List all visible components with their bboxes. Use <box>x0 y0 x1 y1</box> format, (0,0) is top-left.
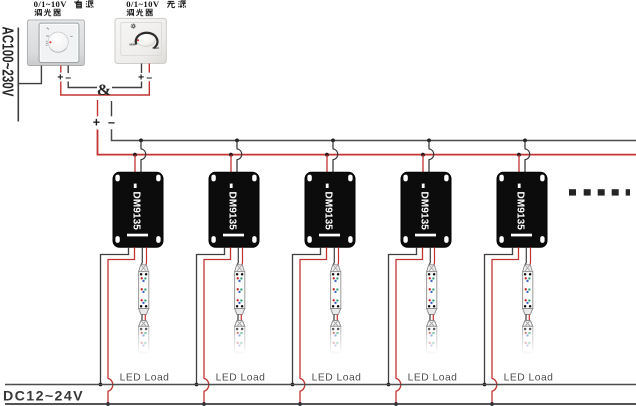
LED strip load LD3 <box>331 265 341 357</box>
svg-text:DM9135: DM9135 <box>323 192 334 231</box>
junction: dim+ bus tap module 2 <box>229 153 233 157</box>
junction: dim- bus tap module 5 <box>523 139 527 143</box>
junction: dim+ bus tap module 3 <box>325 153 329 157</box>
junction: dim- bus tap module 1 <box>139 139 143 143</box>
wire: LED+ output lead (module 4) <box>433 247 436 264</box>
wire: DM9135 #2 V+ lead to DC bus (hops over DC- bus) <box>204 247 231 403</box>
wire: combined V+ drop <box>97 100 99 116</box>
wire: dim+ drop to DM9135 #5 <box>518 155 520 173</box>
dimming driver module DM9135 #3 <box>305 172 355 247</box>
wire: dim- drop to DM9135 #2 (hops over red bus) <box>237 140 242 172</box>
AC mains supply line <box>17 28 19 122</box>
wire: dim+ drop to DM9135 #4 <box>422 155 424 173</box>
rotary knob of passive dimmer <box>136 32 155 46</box>
svg-text:–: – <box>108 116 115 130</box>
wire: dim+ drop to DM9135 #3 <box>326 155 328 173</box>
brightness sun icon <box>131 24 136 29</box>
svg-text:LED Load: LED Load <box>216 372 266 383</box>
wire: active dimmer V+ stub <box>60 66 62 73</box>
wire: DM9135 #2 V- lead to DC bus <box>197 247 225 384</box>
svg-text:DM9135: DM9135 <box>131 192 142 231</box>
junction: V+ on DC+ line (module 2) <box>202 402 206 406</box>
svg-text:&: & <box>97 82 111 99</box>
knob red indicator <box>137 39 139 41</box>
wire: LED+ output lead (module 3) <box>337 247 340 264</box>
wire: LED- output lead (module 1) <box>141 247 142 264</box>
wire: DM9135 #4 V+ lead to DC bus (hops over DC- bus) <box>396 247 423 403</box>
wire: DM9135 #1 V- lead to DC bus <box>101 247 129 384</box>
junction: dim- bus tap module 3 <box>331 139 335 143</box>
wire: LED+ output lead (module 2) <box>241 247 244 264</box>
svg-text:LED Load: LED Load <box>408 372 458 383</box>
wire: LED+ output lead (module 1) <box>145 247 148 264</box>
svg-text:DM9135: DM9135 <box>227 192 238 231</box>
wire: DM9135 #3 V+ lead to DC bus (hops over DC- bus) <box>300 247 327 403</box>
svg-text:MAX: MAX <box>153 46 160 50</box>
junction: dim- bus tap module 4 <box>427 139 431 143</box>
svg-text:LED Load: LED Load <box>120 372 170 383</box>
wire: dim- drop to DM9135 #5 (hops over red bus) <box>525 140 530 172</box>
wire: LED- output lead (module 4) <box>429 247 430 264</box>
wire: DM9135 #5 V- lead to DC bus <box>485 247 513 384</box>
dimming driver module DM9135 #4 <box>401 172 451 247</box>
junction: V- on DC- bus (module 1) <box>99 383 103 387</box>
dimming driver module DM9135 #2 <box>209 172 259 247</box>
junction: V+ on DC+ line (module 5) <box>490 402 494 406</box>
wire: DM9135 #1 V+ lead to DC bus (hops over DC- bus) <box>108 247 135 403</box>
passive dimmer panel (0/1-10V passive dimmer) <box>115 18 166 63</box>
wire: LED- output lead (module 5) <box>525 247 526 264</box>
svg-text:+: + <box>93 116 100 130</box>
wire: LED- output lead (module 3) <box>333 247 334 264</box>
wire: DM9135 #3 V- lead to DC bus <box>293 247 321 384</box>
DC+ power line <box>5 403 636 405</box>
wire: active dimmer AC-L to mains line <box>18 66 41 84</box>
active dimmer panel (0/1-10V active dimmer) <box>27 20 84 66</box>
wire: LED+ output lead (module 5) <box>529 247 532 264</box>
wire: LED- output lead (module 2) <box>237 247 238 264</box>
junction: dim+ bus tap module 4 <box>421 153 425 157</box>
junction: dim+ bus tap module 1 <box>133 153 137 157</box>
junction: dim- bus tap module 2 <box>235 139 239 143</box>
scale marks on active dimmer <box>46 28 73 46</box>
svg-text:DM9135: DM9135 <box>419 192 430 231</box>
wire: black signal link left dimmer to combiner <box>68 82 97 88</box>
svg-text:LED Load: LED Load <box>312 372 362 383</box>
LED strip load LD2 <box>235 265 245 357</box>
wire: DM9135 #4 V- lead to DC bus <box>389 247 417 384</box>
svg-text:DM9135: DM9135 <box>515 192 526 231</box>
junction: V+ on DC+ line (module 3) <box>298 402 302 406</box>
LED strip load LD1 <box>139 265 149 357</box>
svg-text:LED Load: LED Load <box>504 372 554 383</box>
ellipsis: additional modules continue <box>569 189 630 195</box>
wire: active dimmer V- stub <box>67 66 69 74</box>
wire: dim- drop to DM9135 #3 (hops over red bus) <box>333 140 338 172</box>
junction: V- on DC- bus (module 5) <box>483 383 487 387</box>
wire: passive dimmer + stub <box>141 64 143 74</box>
wire: dim- drop to DM9135 #4 (hops over red bus) <box>429 140 434 172</box>
svg-text:DC12~24V: DC12~24V <box>3 389 84 405</box>
wire: combined V- drop <box>111 101 113 116</box>
DC- power bus <box>5 384 636 386</box>
wire: DM9135 #5 V+ lead to DC bus (hops over DC- bus) <box>492 247 519 403</box>
svg-text:MIN: MIN <box>130 43 136 47</box>
label 0/1~10V active dimmer title <box>34 0 94 16</box>
junction: V- on DC- bus (module 3) <box>291 383 295 387</box>
svg-text:0/1~10V: 0/1~10V <box>34 0 68 9</box>
wire: V- bus (0-10V dim bus, black) <box>112 129 636 140</box>
indicator red dot <box>49 41 51 43</box>
wire: V+ bus (0-10V dim bus, red) <box>98 130 636 155</box>
junction: V+ on DC+ line (module 4) <box>394 402 398 406</box>
junction: V- on DC- bus (module 2) <box>195 383 199 387</box>
wire: black signal link right dimmer to combiner <box>112 82 142 88</box>
dimming driver module DM9135 #5 <box>497 172 547 247</box>
wire: dim+ drop to DM9135 #1 <box>134 155 136 173</box>
LED strip load LD5 <box>523 265 533 357</box>
wire: red signal link between dimmers <box>61 81 150 95</box>
dimming driver module DM9135 #1 <box>113 172 163 247</box>
wire: passive dimmer - stub <box>148 64 150 73</box>
junction: V- on DC- bus (module 4) <box>387 383 391 387</box>
junction: dim+ bus tap module 5 <box>517 153 521 157</box>
label 0/1~10V passive dimmer title <box>126 0 186 16</box>
svg-text:AC100~230V: AC100~230V <box>0 27 16 97</box>
LED strip load LD4 <box>427 265 437 357</box>
wire: dim- drop to DM9135 #1 (hops over red bus) <box>141 140 146 172</box>
wire: dim+ drop to DM9135 #2 <box>230 155 232 173</box>
junction: V+ on DC+ line (module 1) <box>106 402 110 406</box>
svg-text:0/1~10V: 0/1~10V <box>126 0 160 9</box>
knob of active dimmer <box>48 32 68 52</box>
